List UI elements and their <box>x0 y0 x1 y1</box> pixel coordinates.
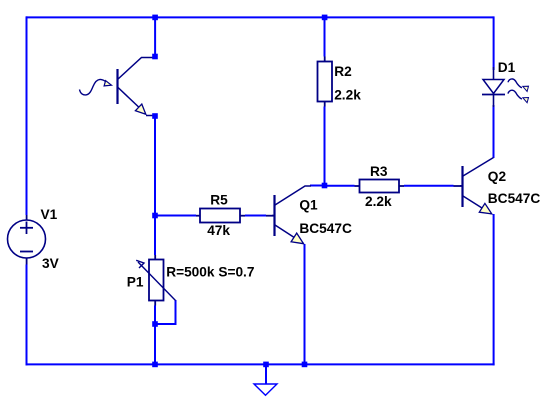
resistor R2 <box>318 62 333 102</box>
V1 bottom pin <box>26 257 28 265</box>
svg-text:47k: 47k <box>207 223 230 238</box>
wire phototransistor emitter down through P1 column <box>154 116 156 255</box>
P1 top pin <box>154 255 156 260</box>
V1 top pin <box>26 215 28 221</box>
svg-text:Q2: Q2 <box>488 169 507 184</box>
wire D1 cathode to Q2 collector <box>493 105 495 158</box>
junction ground / bottom rail <box>263 362 269 368</box>
svg-text:BC547C: BC547C <box>488 191 541 206</box>
wire R2 drop from top rail <box>324 17 326 57</box>
svg-text:D1: D1 <box>498 60 516 75</box>
wire top rail <box>26 16 494 18</box>
wire P1 column to bottom rail <box>154 306 156 366</box>
svg-text:P1: P1 <box>127 274 144 289</box>
ground <box>254 364 277 395</box>
junction Q1 collector / R2 / R3 node <box>322 183 328 189</box>
phototransistor <box>118 58 154 116</box>
wire right rail upper (top rail to D1) <box>493 16 495 70</box>
wire R3 left stub <box>325 185 355 187</box>
light input arrow <box>80 79 112 95</box>
R5 left pin <box>196 215 200 217</box>
R3 right pin <box>399 185 404 187</box>
R2 bottom pin <box>324 101 326 107</box>
wire R5 right stub to Q1 base <box>245 215 266 217</box>
wire Q2 emitter to bottom rail <box>493 214 495 365</box>
R5 right pin <box>240 215 245 217</box>
resistor R3 <box>360 180 400 193</box>
svg-text:R3: R3 <box>370 164 388 179</box>
transistor Q1 <box>272 186 311 244</box>
wire Q1 emitter to bottom rail <box>304 244 306 365</box>
junction top rail / R2 column <box>322 15 328 21</box>
resistor R5 <box>200 209 240 223</box>
junction R5 branch <box>152 213 158 219</box>
light output arrow lower <box>508 90 529 102</box>
svg-text:3V: 3V <box>42 256 60 271</box>
wire R5 left stub <box>155 215 196 217</box>
wire Q1 collector to node <box>310 185 325 187</box>
transistor Q2 <box>460 158 494 215</box>
junction phototransistor emitter <box>152 113 158 119</box>
junction phototransistor collector <box>152 54 158 60</box>
potentiometer P1 <box>136 260 175 301</box>
svg-text:BC547C: BC547C <box>299 221 352 236</box>
Q1 base pin <box>266 215 274 217</box>
light output arrow upper <box>508 79 529 91</box>
svg-text:R5: R5 <box>210 193 228 208</box>
wire phototransistor collector drop from top rail <box>154 17 156 57</box>
R3 left pin <box>355 185 360 187</box>
wire bottom rail <box>26 363 495 365</box>
voltage source V1 <box>8 220 46 258</box>
P1 bottom pin <box>154 300 156 306</box>
svg-text:2.2k: 2.2k <box>365 194 392 209</box>
svg-text:V1: V1 <box>41 207 58 222</box>
junction P1 column / bottom rail <box>152 362 158 368</box>
wire left rail upper (top rail to V1) <box>26 16 28 215</box>
wire R3 right stub to Q2 base <box>404 185 454 187</box>
svg-text:Q1: Q1 <box>299 198 318 213</box>
LED D1 <box>482 67 505 107</box>
junction P1 wiper return <box>152 321 158 327</box>
R2 top pin <box>324 57 326 63</box>
svg-text:R=500k S=0.7: R=500k S=0.7 <box>166 264 255 279</box>
svg-text:R2: R2 <box>334 64 352 79</box>
wire R2 bottom to node <box>324 107 326 187</box>
junction Q1 emitter / bottom rail <box>302 362 308 368</box>
svg-text:2.2k: 2.2k <box>334 87 361 102</box>
wire left rail lower (V1 to bottom rail) <box>26 265 28 366</box>
wire P1 wiper return <box>155 300 176 324</box>
Q2 base pin <box>454 185 463 187</box>
junction top rail / phototransistor column <box>152 15 158 21</box>
